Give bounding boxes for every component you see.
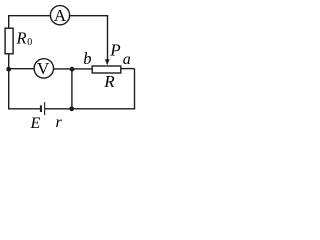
svg-text:E: E xyxy=(30,115,41,129)
wire slider vertical xyxy=(107,16,109,61)
slider P arrowhead xyxy=(105,59,110,65)
battery short plate xyxy=(40,105,42,112)
junction dot middle bottom xyxy=(69,106,74,111)
battery long plate xyxy=(44,102,45,115)
junction dot left xyxy=(6,67,11,72)
voltmeter left wire xyxy=(9,68,34,70)
svg-text:V: V xyxy=(37,59,50,78)
wire bottom right xyxy=(45,108,135,110)
wire left vertical xyxy=(8,16,10,109)
resistor R0 box xyxy=(5,28,13,54)
junction dot middle top xyxy=(70,67,75,72)
svg-text:r: r xyxy=(56,114,63,129)
svg-text:a: a xyxy=(123,51,131,68)
wire bottom left xyxy=(8,108,40,110)
ammeter A circle xyxy=(50,6,69,25)
wire top left xyxy=(8,15,51,17)
svg-text:A: A xyxy=(54,6,67,25)
voltmeter right wire xyxy=(54,68,93,70)
voltmeter V circle xyxy=(34,59,53,78)
rheostat R box xyxy=(92,66,121,73)
svg-text:R: R xyxy=(103,72,115,91)
svg-text:b: b xyxy=(83,49,91,68)
wire rheostat right xyxy=(121,68,135,70)
wire right vertical xyxy=(134,69,136,109)
wire middle vertical xyxy=(71,69,73,109)
wire top right xyxy=(69,15,108,17)
svg-text:R0: R0 xyxy=(16,29,33,48)
svg-text:P: P xyxy=(109,40,120,59)
